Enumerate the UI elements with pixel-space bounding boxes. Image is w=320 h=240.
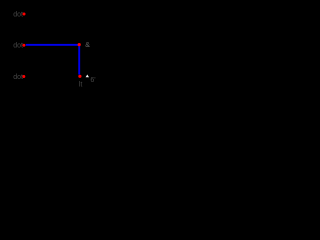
node C: red terminal dot bottom-left: [22, 75, 25, 78]
svg-text:dot: dot: [13, 11, 23, 18]
svg-text:dot: dot: [13, 74, 23, 81]
node A: red terminal dot top-left: [23, 13, 26, 16]
svg-text:6': 6': [90, 77, 95, 84]
svg-text:lt: lt: [79, 81, 83, 88]
node E: red terminal dot bottom-right, end of wire: [78, 75, 81, 78]
svg-text:dot: dot: [13, 43, 23, 50]
wire: blue vertical segment from corner junction D down to node E: [78, 44, 80, 75]
wire: blue horizontal segment from node B to corner junction D: [26, 44, 79, 46]
marker: white up-pointing triangle right of node E: [86, 75, 89, 78]
svg-text:&: &: [85, 42, 90, 49]
node D: red dot at wire corner junction: [78, 43, 81, 46]
node B: red terminal dot middle-left, start of wire: [22, 44, 25, 47]
